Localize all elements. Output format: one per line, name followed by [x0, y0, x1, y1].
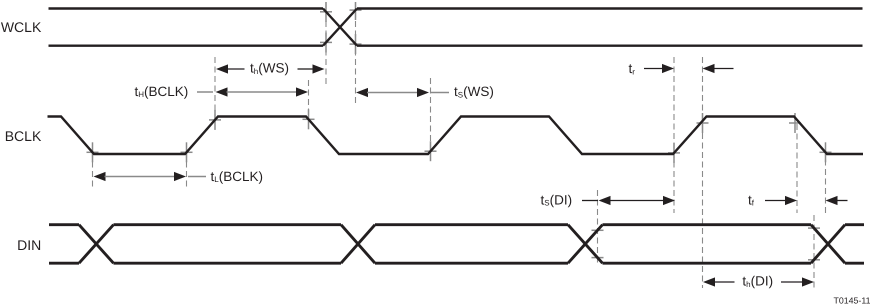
dimension tH(BCLK)	[135, 84, 309, 99]
tick WCLK X right bottom	[350, 43, 362, 45]
tick marks (gray crosses)	[87, 2, 832, 260]
tick BCLK fall4 top	[789, 122, 801, 124]
dashed guide x=215 (BCLK rise1 top / th(WS) left)	[214, 57, 216, 121]
tick BCLK rise2 bottom	[425, 150, 437, 152]
tick BCLK rise1 bottom	[181, 151, 193, 153]
dimension tS(DI)	[541, 192, 676, 207]
WCLK waveform	[49, 9, 863, 46]
tick BCLK rise3 top	[697, 122, 709, 124]
dimension tf	[748, 192, 848, 207]
tick WCLK X right top	[350, 9, 362, 11]
svg-text:tL(BCLK): tL(BCLK)	[211, 169, 263, 184]
tick BCLK fall4 bottom	[820, 151, 832, 153]
dashed guide x=186.5 (BCLK rise1 bottom / tL right)	[186, 152, 188, 189]
dashed guide x=674 (BCLK rise3 bottom / tr left / tS(DI) right)	[673, 57, 675, 213]
tick BCLK rise3 bottom	[668, 152, 680, 154]
dashed guide x=326 (WCLK crossover left)	[325, 2, 327, 84]
dimension th(DI)	[703, 274, 814, 289]
tick DIN X3 bottom arm	[592, 257, 604, 259]
tick BCLK fall2 top	[303, 118, 315, 120]
BCLK waveform	[48, 117, 864, 155]
dashed guide x=355.5 (WCLK crossover right / tS(WS) left)	[355, 2, 357, 105]
dashed guide x=814 (DIN X4 / th(DI) right)	[813, 215, 815, 288]
tick BCLK rise1 top	[209, 119, 221, 121]
tick DIN X3 top arm	[592, 229, 604, 231]
dashed guide x=797 (BCLK fall4 top / tf left)	[796, 124, 798, 213]
svg-text:T0145-11: T0145-11	[833, 295, 870, 304]
dashed guide x=430.5 (BCLK rise2 bottom / tS(WS) right)	[430, 78, 432, 154]
tick WCLK X left top	[320, 11, 332, 13]
tick WCLK X left bottom	[320, 41, 332, 43]
dashed guide x=702.5 (BCLK rise3 top / tr right / th(DI) left)	[702, 57, 704, 288]
DIN waveform	[49, 225, 864, 264]
dimension tL(BCLK)	[94, 169, 263, 184]
dashed guide x=92.5 (BCLK fall1 bottom / tL left)	[92, 152, 94, 189]
svg-text:BCLK: BCLK	[5, 128, 42, 144]
tick BCLK fall1 bottom	[87, 151, 99, 153]
dashed guide x=597.5 (DIN X3 / tS(DI) left)	[597, 190, 599, 263]
dimension tr	[629, 61, 734, 76]
dashed guide x=825.5 (BCLK fall4 bottom / tf right)	[825, 150, 827, 213]
svg-text:WCLK: WCLK	[1, 19, 42, 35]
tick DIN X4 bottom arm	[808, 259, 820, 261]
svg-text:DIN: DIN	[17, 237, 41, 253]
dimension tS(WS)	[356, 84, 494, 99]
tick DIN X4 top arm	[808, 227, 820, 229]
dashed guide x=308.5 (BCLK fall2 top / tH(BCLK) right)	[308, 80, 310, 121]
dimension th(WS)	[216, 61, 325, 76]
